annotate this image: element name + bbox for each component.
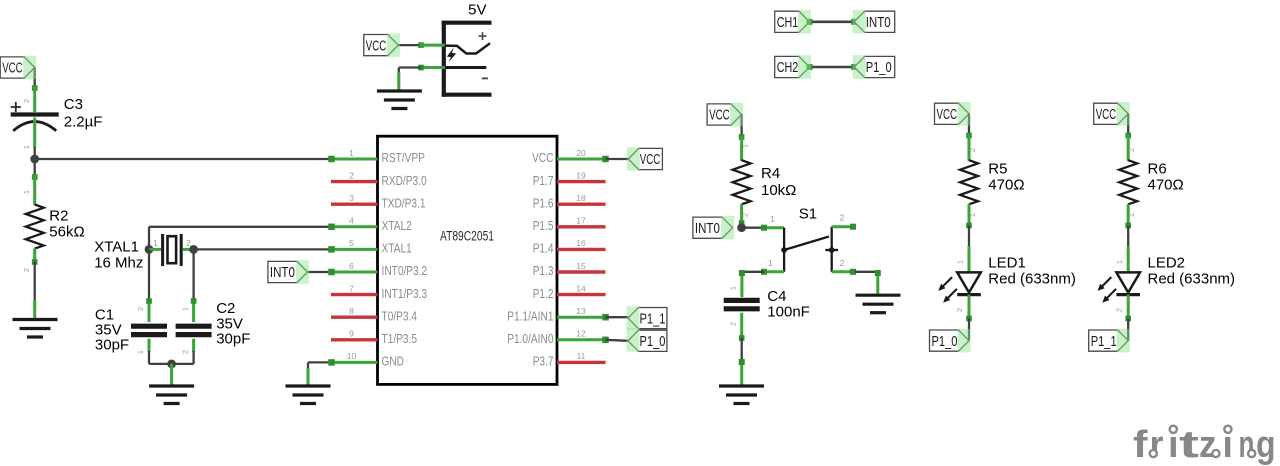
wire junction to S1 pin1: [742, 227, 764, 229]
svg-text:14: 14: [576, 283, 586, 293]
pin 3 TXD/P3.1 stub: [331, 202, 378, 205]
pin number 1 (R5): [968, 213, 977, 217]
svg-text:R4: R4: [761, 165, 780, 182]
capacitor C2 top leg: [191, 298, 197, 322]
op-amp/IC U1 AT89C2051 body: [378, 136, 558, 384]
svg-text:r: r: [1150, 424, 1164, 466]
pin label VCC: [532, 150, 553, 165]
pin label P1.2: [533, 286, 554, 301]
label 5V: [468, 2, 486, 19]
svg-text:2: 2: [955, 308, 964, 312]
pin 19 P1.7 stub: [557, 180, 606, 183]
resistor R6 470: [1119, 160, 1137, 204]
switch S1 pin2 bottom leg: [832, 269, 856, 275]
svg-text:VCC: VCC: [1096, 106, 1117, 123]
capacitor C3 pin 1 leg: [33, 118, 36, 149]
pin label T0/P3.4: [382, 308, 418, 323]
wire INT0 flag to pin 6: [308, 271, 332, 273]
svg-text:1: 1: [349, 148, 354, 158]
svg-text:2: 2: [968, 148, 977, 152]
pin number 1 (C1): [136, 350, 145, 354]
svg-text:Red (633nm): Red (633nm): [1148, 271, 1236, 288]
pin number 7: [349, 283, 354, 293]
svg-text:INT0: INT0: [270, 264, 295, 281]
wire CH2 to P1_0: [807, 64, 858, 70]
wire R2 to ground: [34, 262, 36, 302]
pin number 20: [576, 148, 586, 158]
net label P1_1 (pin 13): [628, 308, 667, 329]
resistor R6 top leg: [1127, 134, 1130, 161]
svg-text:P3.7: P3.7: [533, 354, 554, 369]
svg-text:C4: C4: [767, 288, 786, 305]
label R6 470Ohm: [1148, 161, 1184, 194]
svg-text:VCC: VCC: [532, 150, 553, 165]
svg-text:1: 1: [153, 238, 158, 248]
pin number 6: [349, 261, 354, 271]
ground symbol (crystal): [149, 386, 194, 404]
battery 5V bracket: [442, 21, 492, 97]
net label CH2: [775, 56, 810, 77]
switch S1 pushbutton: [781, 227, 838, 272]
svg-text:INT1/P3.3: INT1/P3.3: [382, 286, 428, 301]
switch S1 pin2 top leg: [832, 224, 856, 230]
pin 13 P1.1/AIN1 stub: [557, 314, 609, 321]
svg-text:2.2µF: 2.2µF: [64, 114, 103, 131]
pin label P1.0/AIN0: [507, 331, 553, 346]
pin 2 RXD/P3.0 stub: [331, 180, 378, 183]
svg-text:1: 1: [741, 144, 750, 148]
pin number 2 (S1 bottom): [840, 258, 845, 268]
wire S1 pin2 to ground: [855, 271, 878, 273]
ground symbol (C4): [719, 386, 764, 404]
pin number 2 (C1): [136, 307, 145, 311]
svg-text:1: 1: [22, 190, 31, 194]
pin number 1: [349, 148, 354, 158]
pin 14 P1.2 stub: [557, 293, 606, 296]
wire C1 to ground junction: [149, 351, 172, 364]
ground symbol (S1): [856, 295, 901, 313]
pin number 3: [349, 193, 354, 203]
LED1 cathode leg: [966, 295, 972, 322]
pin number 2 (R5): [968, 148, 977, 152]
net label VCC (R5): [935, 103, 970, 124]
net label P1_0 (bottom): [930, 330, 970, 351]
svg-text:RXD/P3.0: RXD/P3.0: [382, 173, 427, 188]
ground symbol (IC): [286, 386, 331, 404]
svg-text:Red (633nm): Red (633nm): [988, 271, 1076, 288]
LED2 cathode leg: [1125, 295, 1131, 322]
pin label P1.4: [533, 241, 554, 256]
svg-text:9: 9: [349, 329, 354, 339]
svg-text:XTAL1: XTAL1: [94, 239, 139, 256]
resistor R5 top leg: [968, 134, 971, 161]
pin 4 XTAL2 stub: [328, 224, 377, 231]
pin label RXD/P3.0: [382, 173, 427, 188]
pin label P1.1/AIN1: [507, 308, 553, 323]
battery - lead: [444, 66, 487, 69]
pin number 18: [576, 193, 586, 203]
net label VCC (R4): [707, 104, 742, 125]
pin 10 GND stub: [328, 359, 377, 366]
pin number 1 (LED1): [956, 260, 965, 264]
net label P1_1 (bottom): [1089, 330, 1129, 351]
svg-text:P1.5: P1.5: [533, 218, 554, 233]
pin label XTAL2: [382, 218, 412, 233]
wire pin 12 to P1_0 flag: [606, 340, 629, 341]
pin number 1 (R4): [741, 144, 750, 148]
battery + squiggle lead: [444, 43, 490, 53]
svg-text:1: 1: [22, 145, 31, 149]
label C4 100nF: [767, 288, 810, 321]
svg-text:C2: C2: [216, 300, 235, 317]
svg-text:TXD/P3.1: TXD/P3.1: [382, 195, 426, 210]
pin number 1 (C2): [181, 307, 190, 311]
svg-text:R6: R6: [1148, 161, 1167, 178]
pin label GND: [382, 354, 405, 369]
pin number 17: [576, 216, 586, 226]
svg-text:2: 2: [741, 213, 750, 217]
svg-text:18: 18: [576, 193, 586, 203]
label LED1 Red (633nm): [988, 255, 1076, 288]
pin label INT0/P3.2: [382, 263, 428, 278]
svg-text:RST/VPP: RST/VPP: [382, 150, 425, 165]
svg-text:P1.0/AIN0: P1.0/AIN0: [507, 331, 553, 346]
label C3 2.2uF: [64, 96, 103, 131]
svg-text:P1.6: P1.6: [533, 195, 554, 210]
svg-text:2: 2: [349, 170, 354, 180]
svg-text:1: 1: [768, 258, 773, 268]
svg-text:INT0: INT0: [866, 14, 891, 31]
net label P1_0 (pin 12): [628, 330, 667, 351]
pin number 1 (S1 top): [770, 214, 775, 224]
svg-text:6: 6: [349, 261, 354, 271]
LED1 anode leg: [968, 246, 971, 272]
resistor R4 bottom leg: [739, 204, 745, 226]
svg-text:P1.4: P1.4: [533, 241, 554, 256]
svg-text:VCC: VCC: [640, 151, 661, 168]
pin label T1/P3.5: [382, 331, 418, 346]
wire IC GND pin to ground: [308, 362, 332, 370]
pin number 2 (R6): [1127, 148, 1136, 152]
ground lead (left): [33, 300, 36, 320]
pin number 1 (S1 bottom): [768, 258, 773, 268]
pin 8 T0/P3.4 stub: [331, 316, 378, 319]
ground symbol (left): [13, 320, 58, 338]
svg-text:P1_0: P1_0: [866, 59, 892, 76]
switch S1 pin1 bottom leg: [761, 269, 784, 275]
resistor R2 top leg: [33, 175, 36, 205]
wire LED2 to P1_1 flag: [1127, 319, 1129, 341]
pin number 2 (S1 top): [840, 213, 845, 223]
pin label RST/VPP: [382, 150, 425, 165]
wire VCC to R5: [966, 114, 972, 139]
net label P1_0 (top): [854, 56, 895, 77]
svg-text:CH2: CH2: [777, 59, 799, 76]
wire pin 20 to VCC flag: [606, 158, 629, 160]
pin number 2 (R4): [741, 213, 750, 217]
wire crystal pin1 down to C1: [148, 249, 150, 302]
crystal XTAL1 pin1 junction: [145, 245, 154, 254]
connection highlights (pale green): [23, 10, 1130, 352]
resistor R2 56k: [26, 205, 44, 249]
pin 7 INT1/P3.3 stub: [331, 293, 378, 296]
svg-text:2: 2: [840, 213, 845, 223]
wire crystal pin2 down to C2: [192, 249, 194, 302]
pin number 11: [577, 351, 586, 361]
capacitor C3 (polarized 2.2uF): [11, 102, 59, 131]
battery lightning bolt: [447, 48, 456, 62]
svg-text:R2: R2: [49, 208, 68, 225]
svg-text:17: 17: [576, 216, 586, 226]
pin label P3.7: [533, 354, 554, 369]
capacitor C3 pin 2 leg: [33, 86, 36, 112]
svg-text:30pF: 30pF: [216, 331, 250, 348]
capacitor C2 30pF: [176, 326, 212, 334]
pin number 1 (LED2): [1115, 260, 1124, 264]
battery polarity marks: [479, 32, 488, 78]
svg-text:470Ω: 470Ω: [988, 177, 1024, 194]
pin number 2 (C4): [728, 322, 737, 326]
wire battery - to ground: [399, 68, 421, 75]
label C1 35V 30pF: [95, 307, 129, 354]
pin 20 VCC stub: [557, 156, 609, 163]
wire junction to IC pin 1 RST/VPP: [35, 158, 332, 160]
svg-text:VCC: VCC: [709, 107, 730, 124]
pin number 14: [576, 283, 586, 293]
capacitor C1 bottom leg: [148, 339, 151, 352]
pin label P1.7: [533, 173, 554, 188]
pin 16 P1.4 stub: [557, 248, 606, 251]
wire crystal pin2 to IC pin 5: [194, 248, 332, 250]
svg-text:8: 8: [349, 306, 354, 316]
node junction (R4/INT0/S1): [737, 223, 746, 232]
resistor R5 470: [960, 160, 978, 204]
svg-text:XTAL2: XTAL2: [382, 218, 412, 233]
net label INT0 (switch): [693, 217, 733, 238]
svg-text:30pF: 30pF: [95, 337, 129, 354]
pin number 1 (R6): [1127, 213, 1136, 217]
svg-text:19: 19: [576, 170, 586, 180]
net label INT0 (pin 6): [268, 261, 308, 282]
pin 12 P1.0/AIN0 stub: [557, 337, 609, 344]
pin label P1.5: [533, 218, 554, 233]
svg-text:20: 20: [576, 148, 586, 158]
svg-text:1: 1: [956, 260, 965, 264]
svg-text:2: 2: [181, 350, 190, 354]
crystal XTAL1 pin2 leg: [183, 248, 194, 251]
net label VCC (battery): [364, 35, 399, 56]
svg-text:3: 3: [349, 193, 354, 203]
svg-text:T0/P3.4: T0/P3.4: [382, 308, 418, 323]
crystal XTAL1 16 Mhz symbol: [163, 234, 182, 266]
svg-text:1: 1: [181, 307, 190, 311]
pin number 2 (XTAL1): [186, 238, 191, 248]
capacitor C2 bottom leg: [192, 339, 195, 352]
svg-text:P1_0: P1_0: [640, 333, 666, 350]
fritzing logo: [1133, 424, 1276, 466]
svg-text:XTAL1: XTAL1: [382, 241, 412, 256]
svg-text:LED1: LED1: [988, 255, 1026, 272]
pin number 4: [349, 216, 354, 226]
pin 18 P1.6 stub: [557, 202, 606, 205]
label AT89C2051: [440, 229, 494, 244]
pin number 2 (C2): [181, 350, 190, 354]
capacitor C1 30pF: [131, 326, 167, 334]
capacitor C4 bottom leg: [739, 313, 745, 341]
svg-text:12: 12: [576, 329, 586, 339]
svg-text:2: 2: [136, 307, 145, 311]
switch S1 pin1 top leg: [761, 225, 784, 231]
svg-text:100nF: 100nF: [767, 304, 810, 321]
resistor R2 bottom leg: [32, 249, 38, 265]
svg-text:1: 1: [136, 350, 145, 354]
svg-text:16: 16: [576, 238, 586, 248]
node A junction (C3/R2/RST): [30, 155, 39, 164]
svg-text:P1.2: P1.2: [533, 286, 554, 301]
svg-text:5: 5: [349, 238, 354, 248]
svg-text:VCC: VCC: [2, 60, 23, 77]
svg-text:S1: S1: [799, 206, 817, 223]
pin number 13: [576, 306, 586, 316]
wire XTAL2 net (corner to pin 4): [149, 227, 332, 246]
ground lead (crystal): [170, 364, 173, 386]
svg-text:INT0: INT0: [695, 220, 720, 237]
svg-text:P1.1/AIN1: P1.1/AIN1: [507, 308, 553, 323]
pin number 2 (R2): [22, 268, 31, 272]
pin number 2 (C3): [22, 99, 31, 103]
wire pin 13 to P1_1 flag: [606, 316, 629, 318]
pin 11 P3.7 stub: [557, 361, 606, 364]
pin 17 P1.5 stub: [557, 225, 606, 228]
battery + pin leg: [420, 44, 445, 47]
svg-text:2: 2: [1114, 308, 1123, 312]
pin number 19: [576, 170, 586, 180]
svg-text:16 Mhz: 16 Mhz: [94, 255, 143, 272]
svg-text:1: 1: [1127, 213, 1136, 217]
svg-text:GND: GND: [382, 354, 405, 369]
net label INT0 (top): [854, 11, 895, 32]
pin label INT1/P3.3: [382, 286, 428, 301]
pin number 1 (XTAL1): [153, 238, 158, 248]
ground lead (battery): [397, 72, 400, 91]
svg-text:LED2: LED2: [1148, 255, 1186, 272]
wire C2 to ground junction: [172, 351, 194, 364]
label R5 470Ohm: [988, 161, 1024, 194]
pin number 10: [347, 351, 357, 361]
svg-text:C3: C3: [64, 96, 83, 113]
wire CH1 to INT0: [807, 19, 858, 25]
svg-text:1: 1: [1115, 260, 1124, 264]
ground lead (S1): [875, 270, 881, 295]
svg-text:T1/P3.5: T1/P3.5: [382, 331, 418, 346]
svg-text:7: 7: [349, 283, 354, 293]
label XTAL1 16 Mhz: [94, 239, 143, 272]
svg-text:VCC: VCC: [937, 106, 958, 123]
net label CH1: [775, 11, 810, 32]
wire LED1 to P1_0 flag: [968, 319, 970, 341]
svg-text:13: 13: [576, 306, 586, 316]
net label VCC (R6): [1094, 103, 1129, 124]
label R4 10kOhm: [761, 165, 796, 199]
svg-text:CH1: CH1: [777, 14, 799, 31]
net label VCC (top-left): [0, 57, 35, 78]
svg-text:5V: 5V: [468, 2, 486, 19]
svg-text:t: t: [1179, 424, 1200, 466]
svg-text:1: 1: [770, 214, 775, 224]
pin label TXD/P3.1: [382, 195, 426, 210]
svg-text:4: 4: [349, 216, 354, 226]
svg-text:z: z: [1199, 424, 1217, 466]
svg-text:P1.3: P1.3: [533, 263, 554, 278]
svg-text:10kΩ: 10kΩ: [761, 182, 796, 199]
pin number 1 (C3): [22, 145, 31, 149]
resistor R4 top leg: [740, 136, 743, 162]
pin number 2 (LED1): [955, 308, 964, 312]
ground symbol (battery): [377, 91, 422, 109]
pin 15 P1.3 stub: [557, 270, 606, 273]
svg-text:11: 11: [577, 351, 586, 361]
pin number 2: [349, 170, 354, 180]
wire VCC to C3: [32, 68, 38, 91]
svg-text:P1_1: P1_1: [640, 310, 666, 327]
resistor R4 10k: [733, 160, 751, 204]
svg-text:2: 2: [1127, 148, 1136, 152]
pin number 9: [349, 329, 354, 339]
svg-text:1: 1: [968, 213, 977, 217]
label R2 56kOhm: [49, 208, 84, 241]
resistor R6 bottom leg: [1125, 204, 1131, 228]
node junction (C1/C2/gnd): [167, 360, 176, 369]
pin number 5: [349, 238, 354, 248]
svg-text:56kΩ: 56kΩ: [49, 224, 84, 241]
svg-text:P1_0: P1_0: [932, 333, 958, 350]
label C2 35V 30pF: [216, 300, 250, 348]
pin label P1.3: [533, 263, 554, 278]
label S1: [799, 206, 817, 223]
pin number 1 (C4): [728, 286, 737, 290]
wire R6 to LED2: [1127, 226, 1129, 249]
capacitor C4 top leg: [739, 270, 745, 297]
svg-text:P1.7: P1.7: [533, 173, 554, 188]
crystal XTAL1 pin2 junction: [189, 245, 198, 254]
LED2 anode leg: [1127, 246, 1130, 272]
svg-text:INT0/P3.2: INT0/P3.2: [382, 263, 428, 278]
wire R5 to LED1: [968, 226, 970, 249]
svg-text:2: 2: [728, 322, 737, 326]
svg-text:n: n: [1239, 424, 1255, 466]
svg-text:2: 2: [840, 258, 845, 268]
pin number 1 (R2): [22, 190, 31, 194]
pin number 2 (LED2): [1114, 308, 1123, 312]
capacitor C1 top leg: [146, 298, 152, 322]
pin label P1.6: [533, 195, 554, 210]
pin 9 T1/P3.5 stub: [331, 338, 378, 341]
svg-text:15: 15: [576, 261, 586, 271]
wire C3 to junction: [34, 147, 36, 159]
svg-text:VCC: VCC: [366, 37, 387, 54]
pin number 8: [349, 306, 354, 316]
pin 6 INT0/P3.2 stub: [328, 269, 377, 276]
svg-text:2: 2: [22, 268, 31, 272]
wire VCC to R6: [1125, 114, 1131, 139]
wire VCC to R4: [739, 115, 745, 140]
pin number 15: [576, 261, 586, 271]
svg-text:f: f: [1133, 424, 1148, 466]
ground lead (C4): [739, 359, 745, 386]
capacitor C4 100nF: [724, 300, 760, 308]
svg-text:10: 10: [347, 351, 357, 361]
pin number 16: [576, 238, 586, 248]
